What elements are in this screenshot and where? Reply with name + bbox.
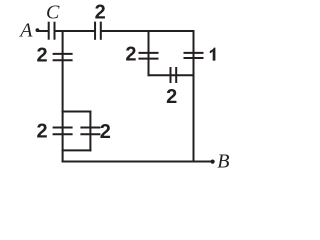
wire parallel loop top [62,111,92,113]
wire left vertical [62,30,64,163]
svg-text:2: 2 [166,86,177,108]
capacitor 2 on inner square bottom [171,67,177,83]
svg-text:2: 2 [95,1,106,23]
capacitor 1 on right vertical [184,53,204,58]
svg-text:C: C [46,2,60,24]
wire parallel loop bottom [62,149,92,151]
capacitor 2 on middle branch [139,53,159,59]
capacitor 2 top horizontal [95,22,101,40]
capacitor 2 loop right label [100,121,111,143]
capacitor 2 top label [95,1,106,23]
capacitor 1 value label [210,48,216,61]
capacitor 2 loop right branch [80,128,100,135]
wire capacitor C to capacitor 2 (top) [55,30,96,32]
wire A dot to capacitor C [37,30,49,32]
svg-text:2: 2 [125,43,136,65]
capacitor 2 middle branch label [125,43,136,65]
svg-text:A: A [18,20,33,42]
capacitor C [49,22,55,40]
svg-text:2: 2 [100,121,111,143]
wire inner square bottom [148,74,195,76]
node B label [217,151,229,173]
wire bottom [62,161,213,163]
capacitor 2 loop left label [37,121,48,143]
capacitor 2 on left vertical [53,54,73,60]
wire middle vertical branch [148,30,150,76]
capacitor 2 left vertical label [37,44,48,66]
svg-text:2: 2 [37,121,48,143]
wire right vertical [193,30,195,163]
capacitor 2 inner square label [166,86,177,108]
node B terminal dot [211,160,215,164]
svg-text:2: 2 [37,44,48,66]
capacitor C value label C [46,2,60,24]
capacitor 2 loop left branch [53,128,73,135]
svg-text:B: B [217,151,229,173]
wire top right segment [101,30,195,32]
wire parallel loop right vertical [89,111,91,152]
node A label [18,20,33,42]
node A terminal dot [36,28,40,32]
